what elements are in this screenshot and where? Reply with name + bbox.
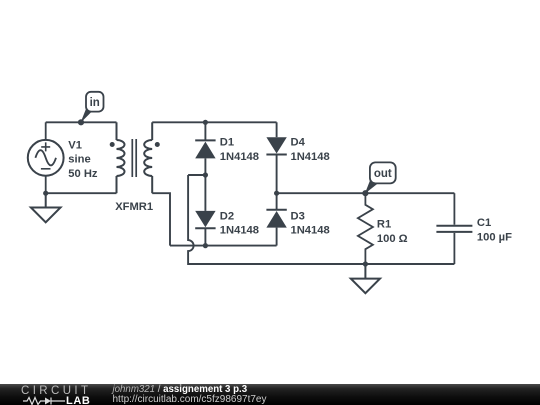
wire top-left (V1 top to XFMR primary) — [46, 121, 117, 123]
junction dot D2 bottom — [203, 243, 208, 248]
svg-text:1N4148: 1N4148 — [220, 151, 259, 163]
wire D1 anode to mid junction — [204, 158, 206, 211]
label C1 100 uF — [477, 217, 512, 244]
label R1 100 ohm — [377, 219, 408, 246]
footer bar — [0, 384, 540, 405]
svg-text:100 µF: 100 µF — [477, 231, 512, 243]
label D1 1N4148 — [220, 137, 259, 164]
svg-text:C1: C1 — [477, 217, 491, 229]
diode D2 — [195, 211, 215, 228]
capacitor C1 — [436, 193, 472, 264]
svg-text:1N4148: 1N4148 — [291, 225, 330, 237]
wire D3 anode down — [276, 228, 278, 246]
svg-text:D3: D3 — [291, 211, 305, 223]
svg-text:D4: D4 — [291, 137, 306, 149]
label V1 sine 50 Hz — [68, 139, 98, 180]
footer text — [113, 385, 267, 404]
wire out rail — [277, 192, 455, 194]
CircuitLab logo — [21, 385, 101, 405]
label D3 1N4148 — [291, 211, 330, 237]
wire D2 cathode down — [204, 228, 206, 245]
svg-text:D1: D1 — [220, 137, 234, 149]
wire secondary bottom jog — [152, 193, 170, 245]
wire right branch top — [276, 122, 278, 137]
wire bottom-left (V1 bottom to XFMR primary) — [46, 192, 117, 194]
junction dot left mid — [203, 172, 208, 177]
svg-text:1N4148: 1N4148 — [220, 225, 259, 237]
svg-text:V1: V1 — [68, 139, 82, 151]
svg-text:R1: R1 — [377, 219, 391, 231]
polarity dot primary — [110, 142, 115, 147]
node out (flag label with anchor dot) — [362, 162, 395, 196]
svg-text:sine: sine — [68, 154, 90, 166]
node in (flag label with anchor dot) — [78, 92, 104, 126]
wire mid link left — [188, 174, 205, 176]
resistor R1 — [358, 193, 373, 264]
junction dot V1 bottom — [43, 191, 48, 196]
ground under V1 — [31, 193, 61, 222]
svg-text:1N4148: 1N4148 — [291, 151, 330, 163]
wire secondary top rail — [152, 121, 276, 123]
junction dot out node — [274, 191, 279, 196]
label D4 1N4148 — [291, 137, 330, 164]
svg-text:D2: D2 — [220, 211, 234, 223]
wire left branch top — [204, 122, 206, 140]
transformer XFMR1 — [117, 122, 153, 193]
diode D4 — [266, 137, 286, 154]
svg-text:XFMR1: XFMR1 — [115, 201, 153, 213]
junction dot R1 bottom — [363, 261, 368, 266]
diode D1 — [195, 140, 215, 158]
diode D3 — [266, 210, 286, 228]
wire bridge bottom (D2-D3 anode rail) — [170, 245, 277, 247]
polarity dot secondary — [155, 142, 160, 147]
svg-text:50 Hz: 50 Hz — [68, 168, 98, 180]
wire D4 cathode to D3 cathode — [276, 155, 278, 210]
voltage source V1 — [28, 122, 64, 193]
junction dot top rail — [203, 120, 208, 125]
svg-text:out: out — [374, 168, 392, 180]
ground under R1 — [351, 264, 380, 293]
label D2 1N4148 — [220, 211, 259, 237]
wire ground return with hop — [188, 175, 454, 264]
svg-text:100 Ω: 100 Ω — [377, 233, 408, 245]
svg-text:in: in — [90, 97, 100, 109]
